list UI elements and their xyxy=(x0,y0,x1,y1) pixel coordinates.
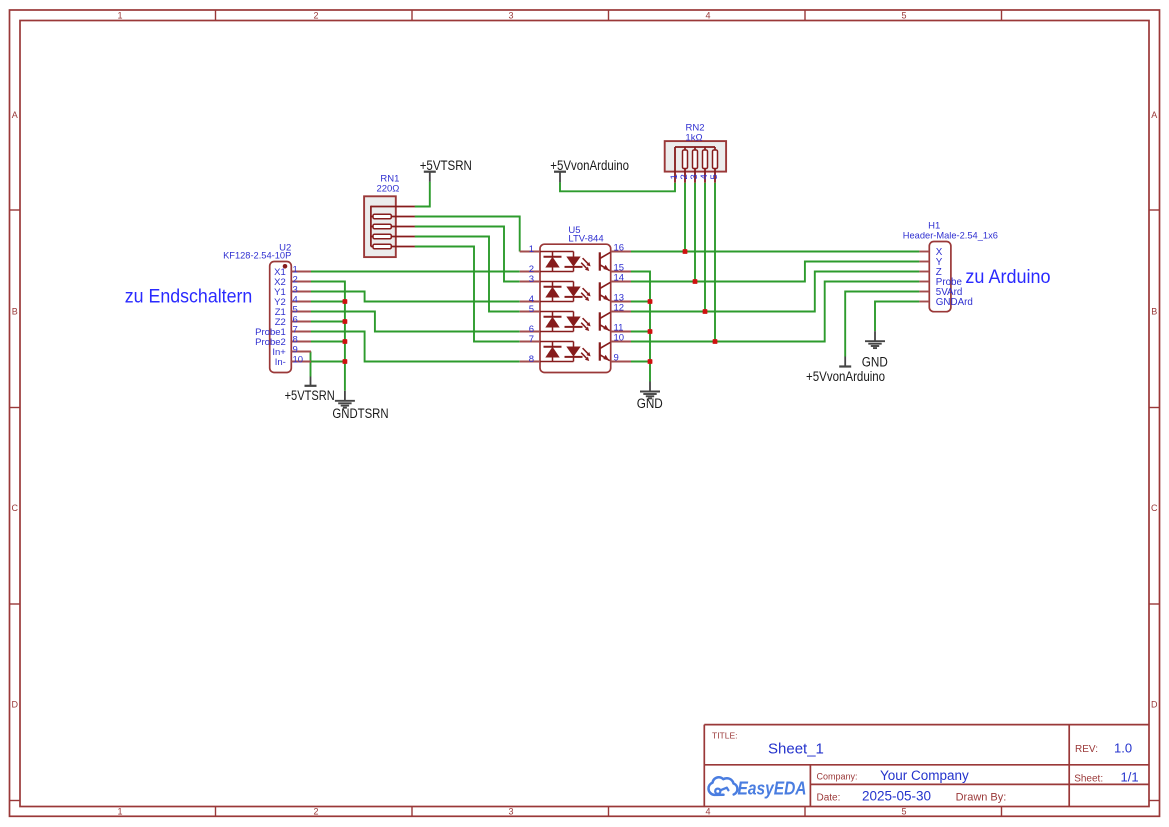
wire U2.6 Z2 to GNDTSRN bus xyxy=(311,321,345,323)
pin 4 (Probe) of H1 xyxy=(919,277,962,288)
resistor network RN2 1kohm xyxy=(665,141,726,172)
resistor network RN1 220ohm xyxy=(364,196,396,257)
pin 11 of U5 xyxy=(611,323,631,334)
wire H1.GNDArd to GND flag xyxy=(875,302,919,332)
pin 5 (Z1) of U2 xyxy=(275,304,311,317)
wire RN1 common to +5VTSRN flag xyxy=(415,182,430,207)
svg-text:1: 1 xyxy=(117,11,122,21)
EasyEDA logo xyxy=(709,777,807,798)
wire U2.7 Probe1 to U5.8 xyxy=(311,332,520,362)
svg-text:B: B xyxy=(1151,306,1157,316)
svg-text:C: C xyxy=(12,503,19,513)
pin 6 of U5 xyxy=(520,324,540,335)
wire H1.5VArd to +5VvonArduino flag xyxy=(845,292,919,357)
pin 9 of U5 xyxy=(611,353,631,364)
svg-text:Sheet:: Sheet: xyxy=(1074,774,1103,785)
svg-text:5: 5 xyxy=(529,304,534,315)
pin 1 of RN2 xyxy=(669,147,680,183)
svg-text:3: 3 xyxy=(508,807,513,817)
wire U5.15 to GND bus xyxy=(631,272,650,382)
junction Probe-RN2.5 xyxy=(713,339,718,344)
svg-text:TITLE:: TITLE: xyxy=(712,731,738,741)
svg-text:D: D xyxy=(12,699,19,709)
phototransistor channel 1 of U5 xyxy=(600,252,611,270)
wire net X U5.16 to H1.X xyxy=(631,251,919,253)
junction GNDTSRN-In- xyxy=(343,359,348,364)
svg-text:zu Endschaltern: zu Endschaltern xyxy=(125,285,253,307)
svg-text:+5VvonArduino: +5VvonArduino xyxy=(550,158,629,173)
wire RN1.2 to U5.1 xyxy=(415,217,520,252)
optocoupler channel 1 LED pair of U5 xyxy=(540,252,591,272)
pin 3 of U5 xyxy=(520,274,540,285)
junction GND-U5.9 xyxy=(648,359,653,364)
svg-text:9: 9 xyxy=(614,353,619,364)
svg-text:4: 4 xyxy=(705,11,710,21)
wire net Y U5.14 to H1.Y xyxy=(631,262,919,282)
pin 3 (Z) of H1 xyxy=(919,267,941,278)
pin 1 (X) of H1 xyxy=(919,247,942,258)
wire RN2.5 to Probe net xyxy=(714,183,716,342)
svg-text:KF128-2.54-10P: KF128-2.54-10P xyxy=(223,250,291,260)
svg-text:1kΩ: 1kΩ xyxy=(685,133,702,144)
svg-text:A: A xyxy=(1151,110,1157,120)
pin 14 of U5 xyxy=(611,273,631,284)
pin 4 of RN2 xyxy=(699,169,710,183)
pin 3 (Y1) of U2 xyxy=(274,284,311,297)
pin 2 (X2) of U2 xyxy=(274,274,311,287)
pin 6 (GNDArd) of H1 xyxy=(919,297,972,308)
pin 2 (Y) of H1 xyxy=(919,257,942,268)
pin 12 of U5 xyxy=(611,303,631,314)
svg-text:EasyEDA: EasyEDA xyxy=(738,779,807,799)
optocoupler channel 2 LED pair of U5 xyxy=(540,282,591,302)
pin 2 of RN2 xyxy=(679,169,690,183)
wire +5VvonArduino flag to RN2.1 xyxy=(560,182,675,191)
svg-text:8: 8 xyxy=(529,354,534,365)
svg-text:2025-05-30: 2025-05-30 xyxy=(862,789,931,804)
wire U2.8 Probe2 to GNDTSRN bus xyxy=(311,341,345,343)
connector U2 KF128-2.54-10P xyxy=(270,262,292,373)
pin 6 (Z2) of U2 xyxy=(275,314,311,327)
pin 2 of RN1 xyxy=(391,216,415,218)
svg-text:5: 5 xyxy=(901,807,906,817)
pin 1 (common) of RN1 xyxy=(371,206,415,208)
pin 7 (Probe1) of U2 xyxy=(255,324,311,337)
svg-text:+5VTSRN: +5VTSRN xyxy=(285,388,335,403)
wire U5.11 to GND bus xyxy=(631,331,650,333)
wire U2.1 X1 to U5.2 xyxy=(311,271,520,273)
svg-text:7: 7 xyxy=(529,334,534,345)
wire RN2.2 to X net xyxy=(684,183,686,252)
phototransistor channel 3 of U5 xyxy=(600,312,611,330)
pin 8 of U5 xyxy=(520,354,540,365)
svg-text:16: 16 xyxy=(614,243,625,254)
pin 7 of U5 xyxy=(520,334,540,345)
wire U5.13 to GND bus xyxy=(631,301,650,303)
optocoupler U5 LTV-844 body xyxy=(540,244,611,372)
wire net Probe U5.10 to H1.Probe xyxy=(631,282,919,342)
optocoupler channel 3 LED pair of U5 xyxy=(540,312,591,332)
ground GND (H1) xyxy=(862,331,888,369)
pin 13 of U5 xyxy=(611,293,631,304)
svg-text:4: 4 xyxy=(705,807,710,817)
pin 1 of U5 xyxy=(520,244,540,255)
pin 5 of RN1 xyxy=(391,246,415,248)
wire net Z U5.12 to H1.Z xyxy=(631,272,919,312)
pin 16 of U5 xyxy=(611,243,631,254)
power flag +5VTSRN (In+) xyxy=(285,377,335,404)
pin 10 of U5 xyxy=(611,333,631,344)
wire U2.10 In- to GNDTSRN bus xyxy=(311,361,345,363)
junction GND-U5.11 xyxy=(648,329,653,334)
pin 2 of U5 xyxy=(520,264,540,275)
svg-text:Sheet_1: Sheet_1 xyxy=(768,741,824,758)
svg-text:+5VTSRN: +5VTSRN xyxy=(420,158,472,173)
pin 4 of U5 xyxy=(520,294,540,305)
power flag +5VvonArduino (H1) xyxy=(806,357,885,385)
pin 15 of U5 xyxy=(611,263,631,274)
junction X-RN2.2 xyxy=(683,249,688,254)
power flag +5VTSRN (RN1) xyxy=(420,158,472,182)
junction GNDTSRN-Z2 xyxy=(343,319,348,324)
svg-text:Company:: Company: xyxy=(817,772,858,782)
wire RN2.4 to Z net xyxy=(704,183,706,312)
svg-text:14: 14 xyxy=(614,273,625,284)
svg-text:GND: GND xyxy=(637,396,663,411)
svg-text:Your Company: Your Company xyxy=(880,768,969,783)
phototransistor channel 2 of U5 xyxy=(600,282,611,300)
svg-text:GNDTSRN: GNDTSRN xyxy=(332,406,388,421)
svg-text:5: 5 xyxy=(709,174,720,179)
svg-text:B: B xyxy=(12,306,18,316)
wire U2.5 Z1 to U5.6 xyxy=(311,312,520,332)
ground GNDTSRN xyxy=(332,391,388,421)
wire U2.3 Y1 to U5.4 xyxy=(311,292,520,302)
svg-text:zu Arduino: zu Arduino xyxy=(965,266,1050,288)
pin 8 (Probe2) of U2 xyxy=(255,334,311,347)
wire GNDTSRN bus vertical xyxy=(311,282,345,391)
svg-text:1: 1 xyxy=(529,244,534,255)
junction GNDTSRN-Y2 xyxy=(343,299,348,304)
svg-text:C: C xyxy=(1151,503,1158,513)
junction GNDTSRN-Probe2 xyxy=(343,339,348,344)
svg-text:A: A xyxy=(12,110,18,120)
wire U2.9 In+ to +5VTSRN flag xyxy=(310,352,313,377)
wire RN1.5 to U5.7 xyxy=(415,247,520,342)
svg-text:Drawn By:: Drawn By: xyxy=(956,792,1007,804)
phototransistor channel 4 of U5 xyxy=(600,342,611,360)
svg-text:220Ω: 220Ω xyxy=(376,183,399,194)
svg-text:D: D xyxy=(1151,699,1158,709)
connector H1 Header-Male-2.54_1x6 xyxy=(929,242,951,312)
wire RN2.3 to Y net xyxy=(694,183,696,282)
pin 5 (5VArd) of H1 xyxy=(919,287,962,298)
svg-text:GND: GND xyxy=(862,354,888,369)
wire RN1.3 to U5.3 xyxy=(415,227,520,282)
pin 3 of RN1 xyxy=(391,226,415,228)
junction Z-RN2.4 xyxy=(703,309,708,314)
svg-text:LTV-844: LTV-844 xyxy=(568,234,603,245)
wire U2.4 Y2 to GNDTSRN bus xyxy=(311,301,345,303)
svg-text:10: 10 xyxy=(614,333,625,344)
ground GND (U5) xyxy=(637,382,663,411)
wire U5.9 to GND bus xyxy=(631,361,650,363)
junction GND-U5.13 xyxy=(648,299,653,304)
junction Y-RN2.3 xyxy=(693,279,698,284)
svg-text:2: 2 xyxy=(313,807,318,817)
svg-text:REV:: REV: xyxy=(1075,744,1098,755)
svg-text:1.0: 1.0 xyxy=(1114,741,1132,756)
power flag +5VvonArduino (RN2) xyxy=(550,158,629,182)
pin 9 (In+) of U2 xyxy=(272,344,311,357)
svg-text:2: 2 xyxy=(313,11,318,21)
svg-text:1: 1 xyxy=(117,807,122,817)
pin 5 of U5 xyxy=(520,304,540,315)
svg-text:5: 5 xyxy=(901,11,906,21)
svg-text:Header-Male-2.54_1x6: Header-Male-2.54_1x6 xyxy=(903,231,998,241)
optocoupler channel 4 LED pair of U5 xyxy=(540,342,591,362)
pin 4 of RN1 xyxy=(391,236,415,238)
svg-text:3: 3 xyxy=(508,11,513,21)
svg-text:GNDArd: GNDArd xyxy=(936,297,973,308)
pin 5 of RN2 xyxy=(709,169,720,183)
svg-text:1/1: 1/1 xyxy=(1121,770,1139,785)
svg-text:In-: In- xyxy=(275,357,286,368)
wire RN1.4 to U5.5 xyxy=(415,237,520,312)
pin 10 (In-) of U2 xyxy=(275,354,311,367)
svg-text:10: 10 xyxy=(293,354,304,365)
title block xyxy=(704,725,1149,807)
svg-text:+5VvonArduino: +5VvonArduino xyxy=(806,369,885,384)
svg-text:3: 3 xyxy=(529,274,534,285)
pin 3 of RN2 xyxy=(689,169,700,183)
svg-text:12: 12 xyxy=(614,303,625,314)
svg-text:Date:: Date: xyxy=(817,793,841,804)
pin 4 (Y2) of U2 xyxy=(274,294,311,307)
pin 1 (X1) of U2 xyxy=(274,264,311,277)
